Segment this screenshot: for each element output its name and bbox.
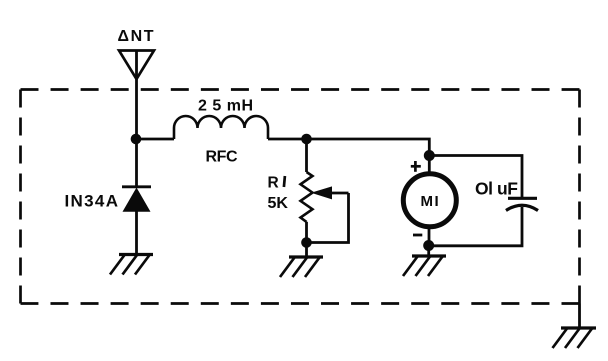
wire: R1 bottom lead xyxy=(305,222,308,243)
diode D1 1N34A xyxy=(122,187,151,212)
wire: node B down to R1 xyxy=(305,139,308,172)
wire: node A down to diode cathode xyxy=(135,139,138,187)
svg-text:ΔNT: ΔNT xyxy=(118,28,156,45)
wire: node D to capacitor top xyxy=(429,156,522,199)
plus polarity mark xyxy=(411,161,421,172)
inductor RFC 2.5 mH xyxy=(174,116,268,139)
motor M1 xyxy=(403,174,456,227)
svg-text:R: R xyxy=(268,174,279,191)
svg-text:IN34A: IN34A xyxy=(65,192,119,211)
wire: shield corner to chassis ground xyxy=(578,304,581,329)
wire: capacitor bottom to node E xyxy=(429,207,522,246)
node B (RFC / R1 / motor junction) xyxy=(301,134,312,145)
shield enclosure (dashed box) xyxy=(21,90,580,304)
node D (motor + junction) xyxy=(424,150,435,161)
capacitor C1 0.1 uF xyxy=(506,198,538,210)
wire: inductor to node B xyxy=(268,138,307,141)
svg-text:5K: 5K xyxy=(268,195,289,212)
ground (motor branch) xyxy=(403,256,446,276)
svg-text:RFC: RFC xyxy=(206,149,238,166)
minus polarity mark xyxy=(413,234,422,237)
wire: node C to ground xyxy=(305,243,308,258)
wire: motor bottom to node E xyxy=(428,227,431,246)
svg-text:Ol uF: Ol uF xyxy=(475,179,518,199)
ground (R1 branch) xyxy=(280,257,323,277)
wire: node B to motor branch xyxy=(307,139,430,172)
wire: node A to inductor xyxy=(136,138,174,141)
wire: node E to ground xyxy=(427,246,430,257)
node E (motor - junction) xyxy=(423,240,434,251)
ground (diode branch) xyxy=(110,255,153,275)
potentiometer R1 5K (zigzag body) xyxy=(301,172,313,222)
label R1 xyxy=(268,174,285,191)
antenna symbol xyxy=(119,51,154,80)
node C (R1 bottom junction) xyxy=(301,237,312,248)
node A (antenna / diode / RFC junction) xyxy=(131,134,142,145)
wire: antenna lead down to node A xyxy=(135,50,138,139)
ground (shield / chassis) xyxy=(553,328,597,348)
wire: diode anode to ground xyxy=(135,211,138,254)
wire: wiper tied to bottom terminal xyxy=(311,193,349,243)
svg-text:MI: MI xyxy=(421,193,441,210)
antenna ANT label xyxy=(118,28,156,45)
R1 wiper arrow xyxy=(311,186,349,199)
svg-text:2 5 mH: 2 5 mH xyxy=(198,98,253,115)
